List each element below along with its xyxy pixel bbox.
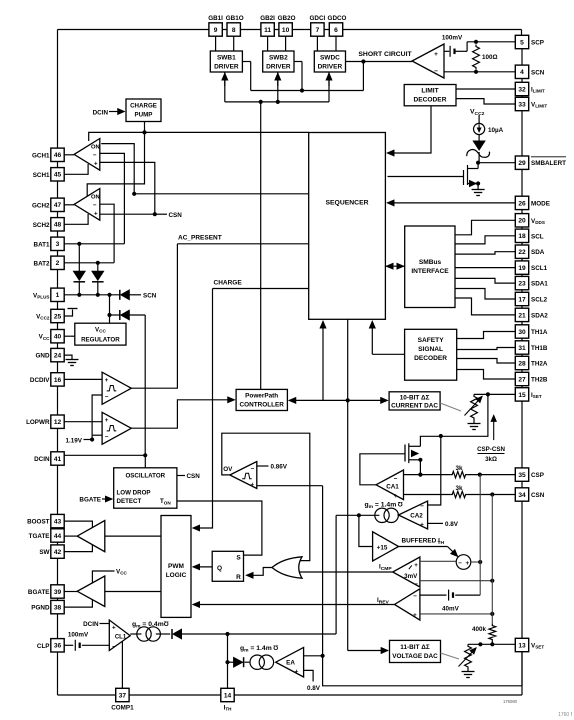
svg-text:SCH2: SCH2 <box>33 222 50 229</box>
svg-text:DCIN: DCIN <box>93 110 109 117</box>
svg-text:37: 37 <box>119 692 127 699</box>
svg-text:31: 31 <box>518 345 526 352</box>
svg-text:42: 42 <box>54 549 62 556</box>
svg-text:BAT1: BAT1 <box>34 241 50 248</box>
svg-text:40: 40 <box>54 334 62 341</box>
svg-text:COMP1: COMP1 <box>111 705 134 712</box>
svg-text:100mV: 100mV <box>68 632 89 639</box>
svg-text:DRIVER: DRIVER <box>318 64 343 71</box>
svg-text:−: − <box>414 581 418 588</box>
svg-text:DECODER: DECODER <box>414 97 447 104</box>
svg-text:28: 28 <box>518 360 526 367</box>
svg-text:+: + <box>94 211 98 218</box>
svg-text:GDCI: GDCI <box>310 15 326 22</box>
svg-text:LOPWR: LOPWR <box>26 419 50 426</box>
svg-text:11: 11 <box>264 27 271 34</box>
svg-text:TH: TH <box>438 540 445 546</box>
svg-text:1.19V: 1.19V <box>66 438 83 445</box>
svg-text:CSN: CSN <box>187 473 201 480</box>
svg-text:SCN: SCN <box>531 69 545 76</box>
svg-text:+: + <box>105 377 109 384</box>
svg-text:27: 27 <box>518 376 526 383</box>
svg-text:SCL: SCL <box>531 233 544 240</box>
svg-text:15: 15 <box>518 392 526 399</box>
svg-text:SWB2: SWB2 <box>269 55 288 62</box>
svg-text:17: 17 <box>518 296 526 303</box>
svg-text:24: 24 <box>54 353 62 360</box>
svg-text:BAT2: BAT2 <box>34 260 50 267</box>
svg-text:+: + <box>295 669 299 676</box>
svg-text:DCIN: DCIN <box>34 456 50 463</box>
svg-text:CSN: CSN <box>531 492 545 499</box>
svg-text:CA2: CA2 <box>410 513 423 520</box>
svg-text:DETECT: DETECT <box>117 498 142 505</box>
svg-text:SDA: SDA <box>531 249 545 256</box>
svg-text:GB1I: GB1I <box>208 15 223 22</box>
svg-text:23: 23 <box>518 281 526 288</box>
svg-text:3kΩ: 3kΩ <box>485 456 497 463</box>
svg-text:29: 29 <box>518 160 526 167</box>
svg-text:CHARGE: CHARGE <box>130 103 157 110</box>
svg-text:TH1A: TH1A <box>531 329 548 336</box>
svg-text:ON: ON <box>91 145 100 151</box>
svg-text:14: 14 <box>224 692 232 699</box>
svg-text:Ω: Ω <box>398 500 403 507</box>
svg-text:SAFETY: SAFETY <box>418 337 445 344</box>
svg-text:18: 18 <box>518 233 526 240</box>
svg-text:+: + <box>250 482 254 489</box>
svg-text:R: R <box>236 574 241 581</box>
svg-text:ON: ON <box>91 195 100 201</box>
svg-text:+: + <box>465 560 469 567</box>
svg-text:2: 2 <box>56 260 60 267</box>
svg-text:46: 46 <box>54 152 62 159</box>
svg-text:BOOST: BOOST <box>27 519 50 526</box>
svg-text:GND: GND <box>36 353 50 360</box>
svg-text:DCIN: DCIN <box>83 621 99 628</box>
svg-text:PowerPath: PowerPath <box>245 393 278 400</box>
svg-text:SCH1: SCH1 <box>33 172 50 179</box>
svg-text:25: 25 <box>54 313 62 320</box>
svg-text:LOGIC: LOGIC <box>166 572 187 579</box>
svg-text:32: 32 <box>518 86 526 93</box>
svg-text:DECODER: DECODER <box>414 355 447 362</box>
svg-text:SDA2: SDA2 <box>531 312 548 319</box>
svg-text:−: − <box>105 394 109 401</box>
svg-text:6: 6 <box>334 27 338 34</box>
svg-text:SCL2: SCL2 <box>531 297 548 304</box>
svg-text:1: 1 <box>56 292 60 299</box>
svg-text:10-BIT ΔΣ: 10-BIT ΔΣ <box>400 395 430 402</box>
svg-text:12: 12 <box>54 419 62 426</box>
svg-text:GCH1: GCH1 <box>32 152 50 159</box>
svg-text:CSN: CSN <box>169 212 183 219</box>
svg-text:CURRENT DAC: CURRENT DAC <box>391 403 438 410</box>
svg-text:BGATE: BGATE <box>28 589 50 596</box>
svg-text:AC_PRESENT: AC_PRESENT <box>178 235 222 242</box>
svg-text:22: 22 <box>518 249 526 256</box>
svg-text:TGATE: TGATE <box>29 533 50 540</box>
svg-text:GCH2: GCH2 <box>32 202 50 209</box>
svg-text:BGATE: BGATE <box>79 497 101 504</box>
svg-text:−: − <box>93 152 97 159</box>
svg-text:Ω: Ω <box>273 643 278 650</box>
svg-text:SEQUENCER: SEQUENCER <box>325 200 368 207</box>
svg-text:TH2A: TH2A <box>531 361 548 368</box>
svg-text:11-BIT ΔΣ: 11-BIT ΔΣ <box>400 644 430 651</box>
svg-text:SWDC: SWDC <box>320 55 340 62</box>
svg-text:SCL1: SCL1 <box>531 265 548 272</box>
svg-text:SMBus: SMBus <box>419 259 442 266</box>
svg-text:BUFFERED I: BUFFERED I <box>402 538 441 545</box>
svg-text:CLP: CLP <box>37 643 50 650</box>
svg-text:7: 7 <box>316 27 320 34</box>
svg-text:21: 21 <box>518 312 526 319</box>
svg-text:LIMIT: LIMIT <box>421 88 438 95</box>
svg-text:SWB1: SWB1 <box>217 55 236 62</box>
svg-text:PUMP: PUMP <box>135 112 153 119</box>
svg-text:3mV: 3mV <box>404 573 418 580</box>
svg-text:+: + <box>112 625 116 632</box>
svg-text:3k: 3k <box>455 465 463 472</box>
svg-text:+: + <box>414 562 418 569</box>
svg-text:45: 45 <box>54 172 62 179</box>
svg-text:100mV: 100mV <box>442 35 463 42</box>
svg-text:SIGNAL: SIGNAL <box>418 346 443 353</box>
svg-text:−: − <box>420 503 424 510</box>
svg-text:176080: 176080 <box>503 699 518 704</box>
svg-text:16: 16 <box>54 377 62 384</box>
svg-text:CA1: CA1 <box>386 484 399 491</box>
svg-text:+: + <box>413 612 417 619</box>
svg-text:OV: OV <box>223 466 233 473</box>
svg-text:−: − <box>458 560 462 567</box>
svg-text:4: 4 <box>520 69 524 76</box>
svg-text:10µA: 10µA <box>488 127 504 134</box>
svg-text:41: 41 <box>54 456 62 463</box>
svg-text:DCDIV: DCDIV <box>30 377 50 384</box>
svg-text:S: S <box>236 555 241 562</box>
svg-text:5: 5 <box>520 39 524 46</box>
svg-text:REGULATOR: REGULATOR <box>81 337 120 344</box>
svg-text:CONTROLLER: CONTROLLER <box>240 402 285 409</box>
svg-text:13: 13 <box>518 642 526 649</box>
svg-text:35: 35 <box>518 472 526 479</box>
svg-text:33: 33 <box>518 101 526 108</box>
svg-text:−: − <box>250 466 254 473</box>
svg-text:26: 26 <box>518 200 526 207</box>
svg-text:TH2B: TH2B <box>531 377 548 384</box>
svg-text:EA: EA <box>286 660 295 667</box>
svg-text:−: − <box>434 68 438 75</box>
svg-text:8: 8 <box>232 27 236 34</box>
svg-text:+: + <box>394 493 398 500</box>
svg-text:43: 43 <box>54 519 62 526</box>
svg-text:SHORT CIRCUIT: SHORT CIRCUIT <box>358 51 412 58</box>
svg-text:36: 36 <box>54 643 62 650</box>
svg-text:+: + <box>105 417 109 424</box>
svg-text:GB1O: GB1O <box>226 15 244 22</box>
svg-text:SCP: SCP <box>531 40 544 47</box>
svg-text:Ω: Ω <box>164 619 169 626</box>
svg-text:−: − <box>105 434 109 441</box>
svg-text:34: 34 <box>518 492 526 499</box>
svg-text:CSP-CSN: CSP-CSN <box>477 446 505 453</box>
svg-text:40mV: 40mV <box>442 606 460 613</box>
svg-text:VOLTAGE DAC: VOLTAGE DAC <box>392 653 438 660</box>
svg-text:0.86V: 0.86V <box>271 464 288 471</box>
svg-text:3k: 3k <box>455 485 463 492</box>
svg-text:400k: 400k <box>472 626 487 633</box>
svg-text:−: − <box>112 643 116 650</box>
svg-text:47: 47 <box>54 202 62 209</box>
svg-text:20: 20 <box>518 218 526 225</box>
svg-text:100Ω: 100Ω <box>482 54 498 61</box>
svg-text:INTERFACE: INTERFACE <box>411 268 449 275</box>
svg-text:CHARGE: CHARGE <box>214 280 243 287</box>
svg-text:PWM: PWM <box>168 563 184 570</box>
svg-text:GB2O: GB2O <box>278 15 296 22</box>
svg-text:Q: Q <box>217 565 222 572</box>
svg-text:DRIVER: DRIVER <box>214 64 239 71</box>
svg-text:CL1: CL1 <box>115 635 127 641</box>
svg-text:+: + <box>420 522 424 529</box>
svg-text:10: 10 <box>282 27 290 34</box>
svg-text:SW: SW <box>39 549 49 556</box>
svg-text:1760 f: 1760 f <box>558 712 573 718</box>
svg-text:LOW DROP: LOW DROP <box>117 490 151 497</box>
svg-text:PGND: PGND <box>31 605 50 612</box>
svg-text:19: 19 <box>518 265 526 272</box>
svg-text:39: 39 <box>54 589 62 596</box>
svg-text:0.8V: 0.8V <box>307 685 321 692</box>
svg-text:DRIVER: DRIVER <box>266 64 291 71</box>
svg-text:SDA1: SDA1 <box>531 281 548 288</box>
svg-text:MODE: MODE <box>531 200 550 207</box>
svg-text:SMBALERT: SMBALERT <box>531 160 566 167</box>
svg-text:−: − <box>413 593 417 600</box>
svg-text:−: − <box>394 476 398 483</box>
svg-text:30: 30 <box>518 329 526 336</box>
svg-text:GB2I: GB2I <box>260 15 275 22</box>
svg-text:TH1B: TH1B <box>531 345 548 352</box>
svg-text:+: + <box>434 51 438 58</box>
svg-text:+: + <box>94 161 98 168</box>
svg-text:GDCO: GDCO <box>328 15 347 22</box>
svg-text:3: 3 <box>56 241 60 248</box>
svg-text:OSCILLATOR: OSCILLATOR <box>125 473 165 480</box>
svg-text:44: 44 <box>54 533 62 540</box>
svg-text:−: − <box>93 202 97 209</box>
svg-text:9: 9 <box>214 27 218 34</box>
svg-text:38: 38 <box>54 605 62 612</box>
svg-text:+15: +15 <box>377 544 388 551</box>
svg-text:SCN: SCN <box>143 293 157 300</box>
svg-text:48: 48 <box>54 222 62 229</box>
svg-text:CSP: CSP <box>531 472 544 479</box>
svg-text:0.8V: 0.8V <box>445 521 459 528</box>
